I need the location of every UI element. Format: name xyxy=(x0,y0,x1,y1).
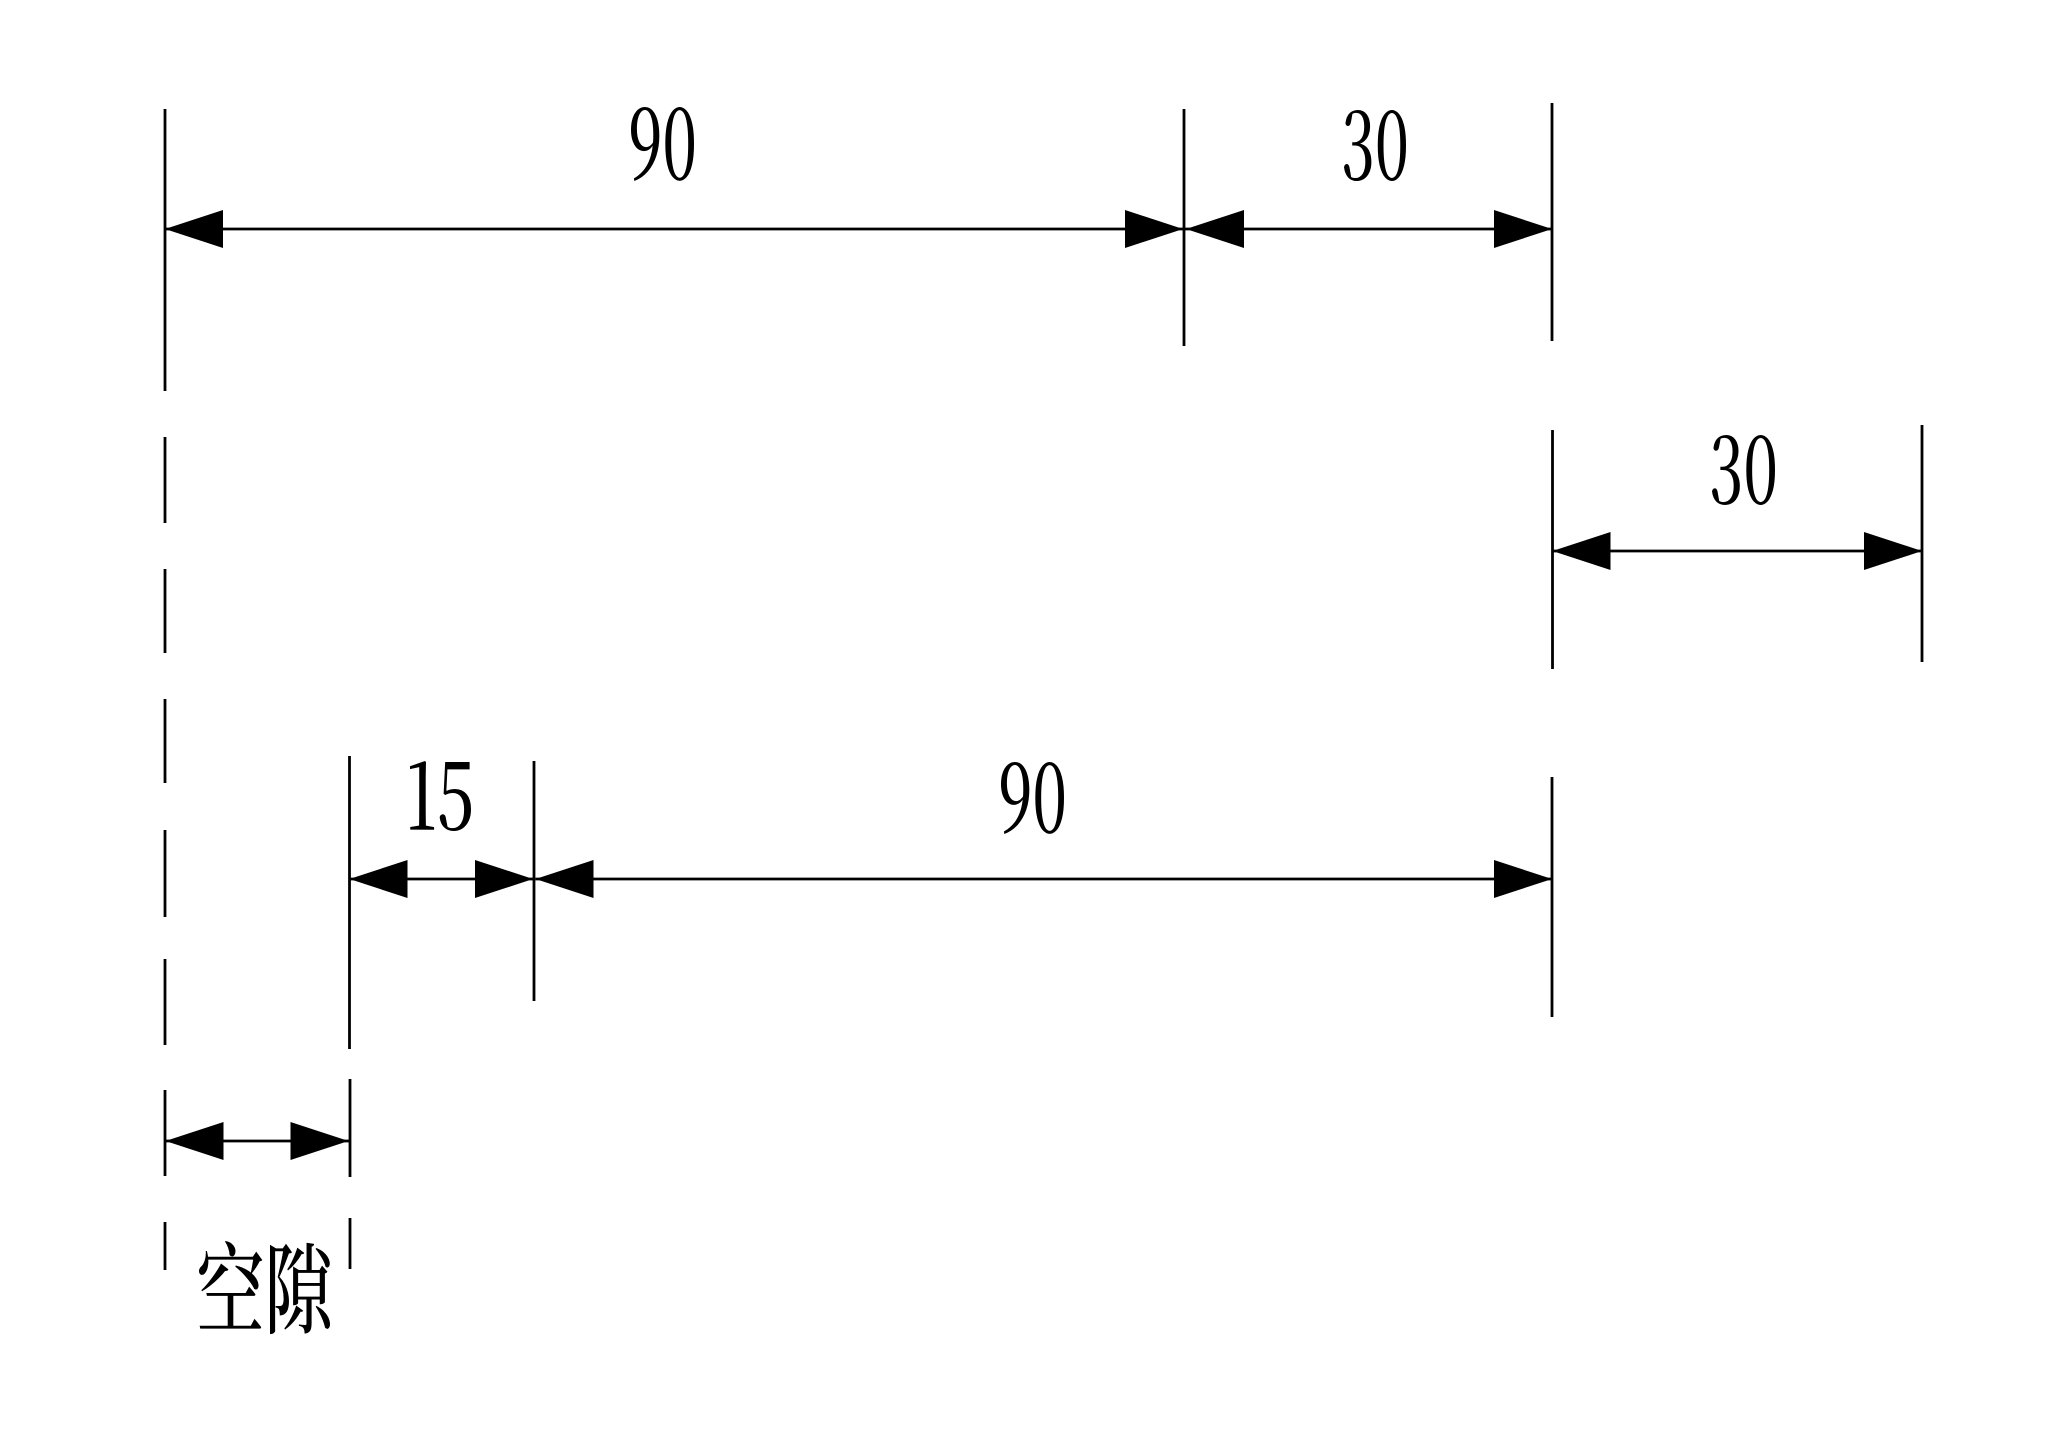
extension line right (top group, x=1552) xyxy=(1551,103,1554,341)
extension dash lower (gap group, x=350) xyxy=(349,1218,352,1269)
arrowhead right of top "30" dimension xyxy=(1494,210,1552,248)
dimension line "30" (top, y=229) xyxy=(1184,228,1552,231)
extension line left (bottom group, x=349.5) xyxy=(348,756,351,1049)
extension line left (right group, x=1552.5) xyxy=(1551,430,1554,669)
extension line middle (top group, x=1184) xyxy=(1183,109,1186,346)
dimension line gap (y=1141) xyxy=(165,1140,350,1143)
extension line left (top group, x=165) xyxy=(164,109,167,391)
extension line right (bottom group, x=1552) xyxy=(1551,777,1554,1017)
value label "90" (bottom dimension) xyxy=(1001,762,1064,834)
extension line right (right group, x=1922) xyxy=(1921,425,1924,662)
dimension line "15" (bottom, y=879) xyxy=(350,878,535,881)
arrowhead right of top "90" dimension xyxy=(1125,210,1183,248)
arrowhead left of gap dimension xyxy=(166,1122,224,1160)
dashed centerline (x=165, below top extension line) xyxy=(164,437,167,523)
arrowhead left of right "30" dimension xyxy=(1553,532,1611,570)
arrowhead right of right "30" dimension xyxy=(1864,532,1922,570)
arrowhead right of bottom "90" dimension xyxy=(1494,860,1552,898)
value label "15" (bottom dimension) xyxy=(410,761,471,831)
arrowhead right of "15" dimension xyxy=(475,860,533,898)
extension line middle (bottom group, x=534) xyxy=(533,761,536,1001)
arrowhead right of gap dimension xyxy=(291,1122,349,1160)
value label "90" (top dimension) xyxy=(631,107,694,181)
arrowhead left of "15" dimension xyxy=(350,860,408,898)
value label "30" (top dimension) xyxy=(1344,110,1406,181)
dimension line "90" (top, y=229) xyxy=(165,228,1184,231)
arrowhead left of top "90" dimension xyxy=(165,210,223,248)
dimension line "90" (bottom, y=879) xyxy=(536,878,1553,881)
extension dash upper (gap group, x=350) xyxy=(349,1079,352,1177)
value label "30" (right dimension) xyxy=(1712,435,1775,505)
arrowhead left of top "30" dimension xyxy=(1186,210,1244,248)
dimension line "30" (right, y=551) xyxy=(1553,550,1923,553)
text label "空隙" (gap) xyxy=(199,1241,330,1334)
arrowhead left of bottom "90" dimension xyxy=(536,860,594,898)
